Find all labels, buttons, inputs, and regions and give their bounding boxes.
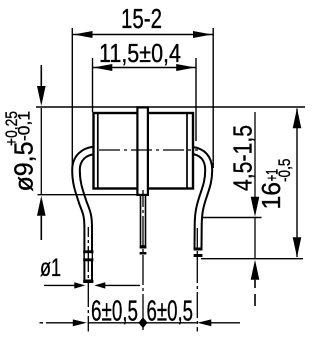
text 4,5-1,5 (rotated) <box>228 125 258 191</box>
center band (middle electrode) <box>137 107 148 194</box>
break bars on right lead <box>194 248 203 251</box>
reference line top (y=107) <box>36 106 305 108</box>
svg-text:6±0,5: 6±0,5 <box>147 296 194 328</box>
white gaps between left lead break bars <box>85 253 92 258</box>
svg-text:4,5-1,5: 4,5-1,5 <box>228 125 258 191</box>
wire: center lead inner white <box>141 196 144 246</box>
wire: right lead inner white <box>192 151 209 248</box>
dimension 4,5: vertical line at x=253.8 <box>254 112 256 197</box>
lead centerline right (dash-dot) <box>196 228 198 332</box>
break bars on left lead <box>83 250 93 253</box>
wire: center lead (black outer stroke) <box>140 196 147 247</box>
svg-text:-0,1: -0,1 <box>15 111 34 141</box>
wire: left lead (black outer stroke) <box>76 151 94 282</box>
dimension 15-2: line with outward arrows <box>73 34 213 36</box>
right end-cap line <box>186 112 188 189</box>
dimension 16: vertical line at x=297 with inward arrows <box>296 109 298 258</box>
diamond node on bottom dimension line <box>138 317 147 328</box>
svg-text:ø9,5: ø9,5 <box>9 142 39 192</box>
lead centerline center (dash-dot) <box>142 190 144 332</box>
reference line right lower (y=258.7) <box>201 258 303 260</box>
dimension 15-2: extension line left (x=72.3) <box>71 28 73 174</box>
dimension 11,5: extension line left (x=92.5) <box>92 58 94 112</box>
dimension dia 1: arrows at y=285.4 <box>44 284 75 286</box>
dimension 11,5: extension line right (x=196) <box>195 58 197 141</box>
text 16 +1/-0,5 (rotated) <box>256 159 294 210</box>
svg-text:11,5±0,4: 11,5±0,4 <box>99 38 181 68</box>
bottom dimension line 6/6 at y=322.8 <box>40 322 44 324</box>
component body (ceramic tube outline) <box>94 113 194 189</box>
dimension 11,5: line with outward arrows <box>93 67 196 69</box>
reference line bottom-left (y=194.7) <box>38 194 137 196</box>
svg-text:ø1: ø1 <box>40 254 61 282</box>
wire: left lead inner white <box>76 151 94 280</box>
svg-text:15-2: 15-2 <box>121 3 162 34</box>
dimension 15-2: extension line right (x=213.2) <box>212 28 214 168</box>
svg-text:6±0,5: 6±0,5 <box>91 296 138 328</box>
horizontal centerline of body (dash-dot) <box>99 149 198 151</box>
left end-cap line <box>97 112 99 189</box>
text dia 9,5 +0,25/-0,1 (rotated) <box>2 111 39 192</box>
svg-text:16: 16 <box>256 182 286 210</box>
lead centerline left (dash-dot) <box>87 227 89 332</box>
wire: right lead (black outer stroke) <box>192 151 209 250</box>
reference line right mid (y=217.5) <box>203 217 262 219</box>
break bars on center lead <box>140 246 147 249</box>
svg-text:-0,5: -0,5 <box>276 159 294 182</box>
dimension dia 9,5: vertical line at x=41 <box>40 65 42 86</box>
